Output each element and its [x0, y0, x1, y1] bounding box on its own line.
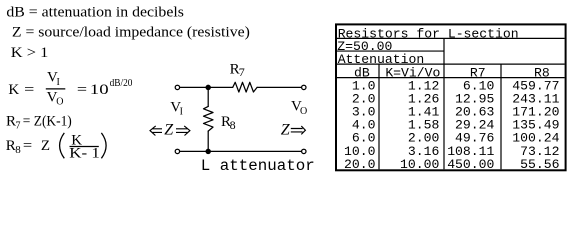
- label load impedance Z with arrow: [281, 121, 306, 138]
- node junction bottom: [206, 149, 210, 153]
- terminal top-right: [302, 85, 306, 89]
- svg-text:dB = attenuation in decibels: dB = attenuation in decibels: [6, 5, 184, 21]
- table column line K: [443, 38, 445, 169]
- resistor R7: [233, 82, 257, 92]
- label source impedance Z with double arrows: [150, 121, 190, 138]
- wire R8 bottom lead: [207, 131, 209, 151]
- formula: R8 = Z (K/(K-1)): [6, 133, 106, 162]
- label VI input voltage: [170, 99, 183, 117]
- label R8: [221, 114, 236, 132]
- svg-text:Z = source/load impedance (res: Z = source/load impedance (resistive): [12, 25, 250, 41]
- terminal bottom-left: [175, 149, 179, 153]
- table frame: [336, 24, 566, 170]
- svg-text:Z: Z: [164, 121, 174, 138]
- svg-text:55.56: 55.56: [520, 157, 559, 172]
- svg-text:=: =: [24, 82, 34, 98]
- svg-text:K > 1: K > 1: [11, 45, 49, 61]
- formula line: K > 1: [11, 45, 49, 61]
- table line under header row: [337, 77, 565, 79]
- terminal bottom-right: [302, 149, 306, 153]
- svg-text:= Z(K-1): = Z(K-1): [23, 113, 72, 129]
- resistor R8: [204, 106, 214, 131]
- table line under title: [337, 37, 565, 39]
- formula: K = VI/VO = 10^dB/20: [8, 70, 132, 108]
- svg-text:8: 8: [15, 144, 21, 156]
- table line under Attenuation row: [337, 63, 565, 65]
- svg-text:R: R: [6, 113, 16, 129]
- svg-text:8: 8: [230, 118, 236, 132]
- table header row: [354, 65, 550, 80]
- table line under Z row: [337, 50, 444, 52]
- svg-text:K: K: [8, 82, 19, 98]
- svg-text:I: I: [180, 106, 183, 117]
- svg-text:=: =: [77, 82, 87, 98]
- table title: [338, 26, 519, 41]
- svg-text:I: I: [57, 77, 60, 88]
- svg-text:O: O: [300, 106, 307, 117]
- svg-text:10.00: 10.00: [400, 157, 439, 172]
- wire top-left segment: [180, 86, 233, 88]
- label R7: [230, 61, 245, 79]
- svg-text:O: O: [56, 96, 63, 107]
- node junction top: [206, 85, 210, 89]
- table column line dB: [378, 64, 380, 169]
- wire top-right segment: [257, 86, 301, 88]
- svg-text:L attenuator: L attenuator: [201, 157, 315, 175]
- label VO output voltage: [291, 98, 307, 117]
- terminal top-left: [175, 85, 179, 89]
- svg-text:Z: Z: [41, 138, 50, 154]
- svg-text:K- 1: K- 1: [69, 145, 100, 161]
- svg-text:=: =: [23, 138, 32, 154]
- formula line: dB definition: [6, 5, 184, 21]
- table Z row: [337, 39, 392, 54]
- svg-text:7: 7: [239, 65, 245, 79]
- caption L attenuator: [201, 157, 315, 175]
- svg-text:dB/20: dB/20: [110, 78, 133, 89]
- svg-text:450.00: 450.00: [447, 157, 494, 172]
- formula line: Z definition: [12, 25, 250, 41]
- svg-text:Z: Z: [281, 121, 291, 138]
- table data rows: [344, 78, 560, 172]
- wire R8 top lead: [207, 87, 209, 106]
- table column line R7: [500, 64, 502, 169]
- wire bottom segment: [180, 150, 302, 152]
- svg-text:10: 10: [90, 82, 109, 98]
- table Attenuation row: [338, 52, 425, 67]
- svg-text:20.0: 20.0: [344, 157, 376, 172]
- svg-text:7: 7: [16, 121, 21, 132]
- formula: R7 = Z(K-1): [6, 113, 72, 131]
